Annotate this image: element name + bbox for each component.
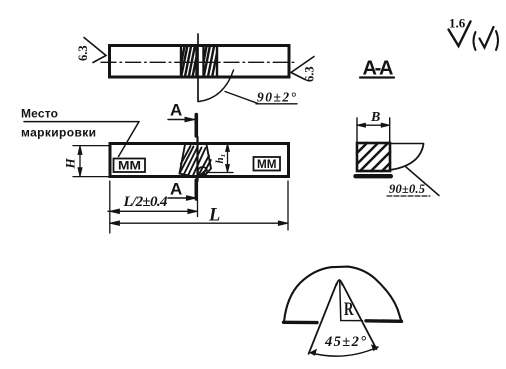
- underline of 90±2: [256, 103, 297, 105]
- base line right: [366, 319, 402, 323]
- section arrow top: [168, 119, 194, 121]
- svg-text:ММ: ММ: [257, 159, 277, 171]
- svg-text:ММ: ММ: [118, 161, 141, 173]
- dome arc: [284, 267, 401, 322]
- svg-text:6.3: 6.3: [76, 45, 90, 61]
- svg-text:6.3: 6.3: [303, 66, 317, 82]
- svg-text:45±2°: 45±2°: [324, 334, 366, 350]
- svg-text:Место: Место: [21, 107, 58, 121]
- 90±0.5 angle: horizontal ref line: [391, 143, 424, 145]
- notch bottom radius circle: [198, 167, 207, 176]
- corner big check: [449, 22, 471, 47]
- svg-text:B: B: [370, 110, 380, 125]
- V-notch hatched: [180, 145, 212, 177]
- V leg right: [342, 284, 376, 350]
- thick base line under section: [356, 174, 391, 178]
- svg-text:H: H: [63, 158, 78, 170]
- L/2 dimension: [109, 181, 111, 233]
- roughness 6.3 right leader: [291, 57, 314, 80]
- svg-text:маркировки: маркировки: [21, 126, 96, 140]
- svg-text:h₁: h₁: [214, 154, 226, 164]
- marking box left: [114, 159, 146, 173]
- V leg left: [309, 284, 337, 354]
- svg-text:L: L: [208, 206, 220, 226]
- svg-text:R: R: [344, 299, 354, 320]
- section plane line through top view: [197, 34, 199, 102]
- bar outline front view: [110, 144, 289, 177]
- parenthesis left: [474, 32, 476, 50]
- parenthesis right: [496, 31, 498, 50]
- section arrow bottom: [168, 197, 194, 199]
- B dimension: [356, 118, 358, 142]
- svg-text:A-A: A-A: [363, 58, 394, 80]
- svg-text:L/2±0.4: L/2±0.4: [123, 194, 169, 210]
- svg-text:1.6: 1.6: [449, 16, 466, 31]
- bar outline top view: [110, 46, 290, 78]
- svg-text:90±2°: 90±2°: [257, 90, 297, 105]
- centerline top view: [101, 61, 297, 63]
- 90±0.5 leader: [406, 167, 439, 196]
- leader line to 90±2 text: [225, 92, 258, 104]
- base line left: [284, 321, 318, 325]
- hatched chamfer block left (top view): [181, 46, 197, 78]
- svg-text:90±0.5: 90±0.5: [389, 182, 425, 196]
- h1 dimension right of notch: [208, 172, 233, 174]
- 45±2 dim arc: [310, 347, 378, 356]
- small check in parens: [480, 27, 494, 48]
- svg-text:A: A: [170, 180, 182, 199]
- svg-text:A: A: [170, 101, 182, 120]
- section tick top: [195, 115, 199, 137]
- marking box right: [254, 157, 281, 171]
- H dimension: [73, 145, 110, 147]
- 90±0.5 angle arc: [392, 144, 424, 170]
- section square hatch: [357, 143, 390, 171]
- dashed underline 90±0.5: [387, 195, 430, 197]
- section tick bottom: [195, 180, 199, 199]
- L dimension: [287, 181, 289, 230]
- roughness 6.3 left leader: [84, 38, 106, 63]
- angle arc 90deg (top view): [199, 70, 234, 102]
- section line through notch: [196, 137, 198, 181]
- section square: [357, 143, 390, 171]
- hatched chamfer block right (top view): [204, 46, 218, 78]
- V apex radius: [336, 280, 342, 285]
- R line: [340, 281, 363, 321]
- leader Mesto markirovki: [24, 121, 139, 123]
